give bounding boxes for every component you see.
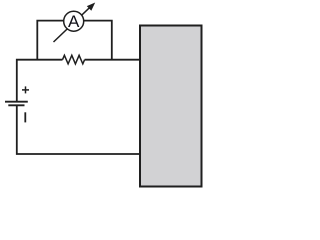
label: negative terminal bar (24, 112, 26, 122)
wire: battery negative terminal down and along bottom to gray box (17, 106, 140, 154)
battery B1 negative plate (short) (8, 104, 24, 106)
svg-text:A: A (68, 12, 80, 31)
wire: ammeter branch left side (37, 21, 63, 60)
ammeter A (adjustable, arrow through) (54, 3, 96, 43)
label: + (positive terminal) (22, 86, 29, 93)
wire: resistor to gray box (85, 59, 140, 61)
wire: ammeter branch right side (84, 21, 112, 60)
wire: battery positive terminal up and right to resistor (17, 60, 63, 101)
resistance box (gray load) (140, 26, 202, 187)
battery B1 positive plate (long) (5, 101, 28, 103)
resistor R (63, 55, 85, 64)
